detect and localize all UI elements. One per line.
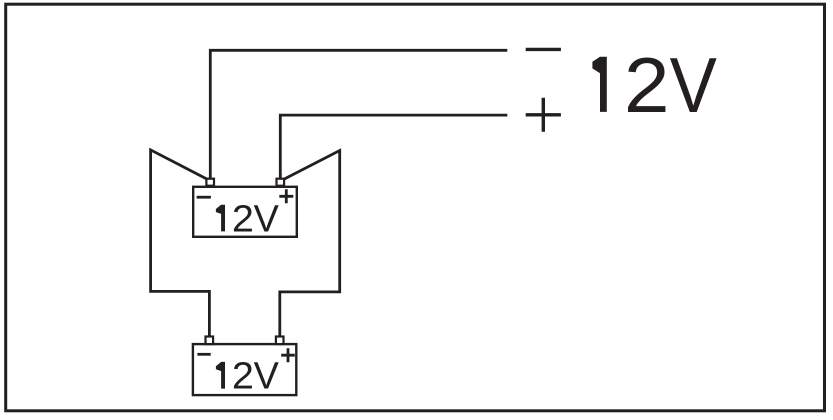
- svg-text:2: 2: [624, 42, 670, 128]
- svg-text:V: V: [254, 198, 279, 240]
- svg-text:2: 2: [232, 198, 254, 240]
- svg-text:V: V: [254, 355, 279, 397]
- svg-text:V: V: [670, 42, 718, 129]
- svg-text:2: 2: [232, 356, 254, 398]
